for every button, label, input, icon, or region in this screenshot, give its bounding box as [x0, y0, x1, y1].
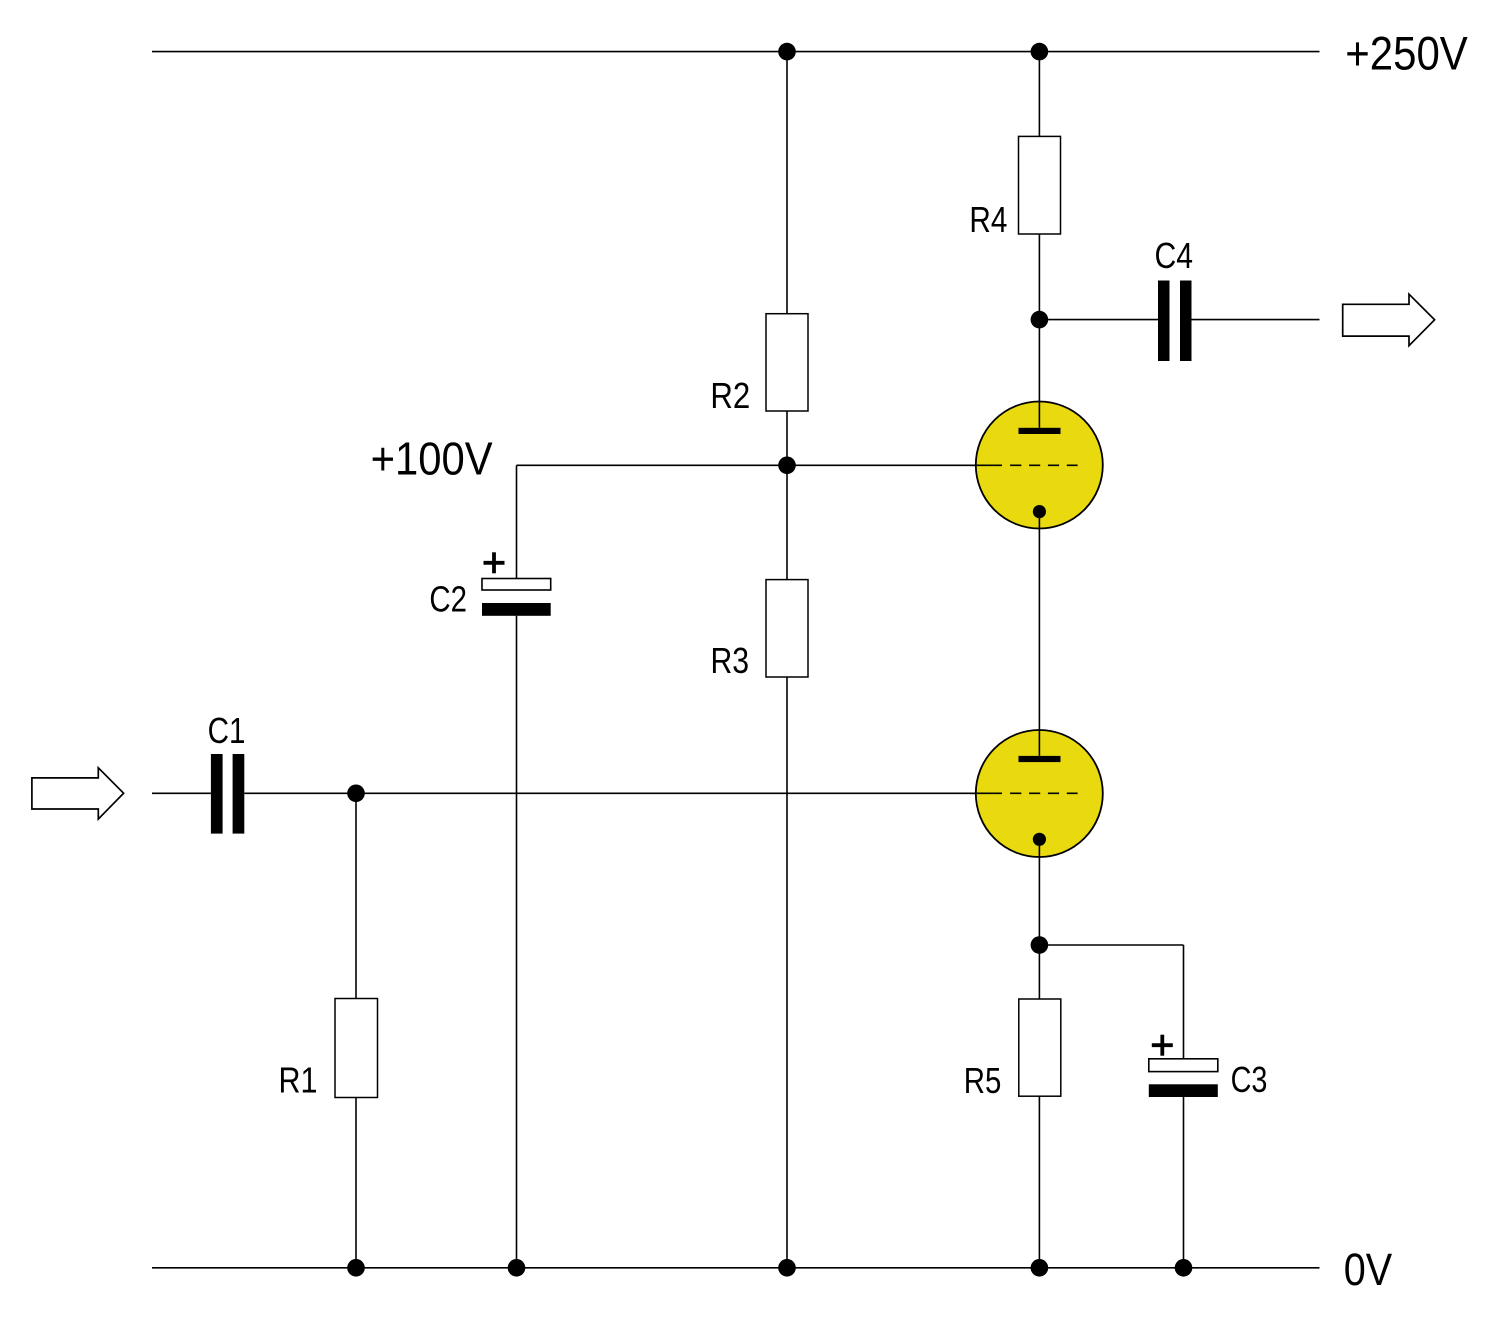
svg-text:0V: 0V [1344, 1244, 1392, 1295]
svg-text:+100V: +100V [371, 433, 493, 485]
svg-text:+250V: +250V [1345, 28, 1468, 81]
svg-text:C1: C1 [208, 710, 246, 751]
svg-text:R2: R2 [710, 375, 750, 416]
svg-text:R3: R3 [711, 640, 750, 681]
svg-text:C4: C4 [1155, 235, 1194, 276]
svg-text:C3: C3 [1231, 1059, 1268, 1100]
svg-text:R4: R4 [969, 199, 1007, 240]
svg-text:C2: C2 [429, 578, 467, 619]
svg-text:R1: R1 [279, 1060, 318, 1101]
svg-text:R5: R5 [964, 1060, 1002, 1101]
